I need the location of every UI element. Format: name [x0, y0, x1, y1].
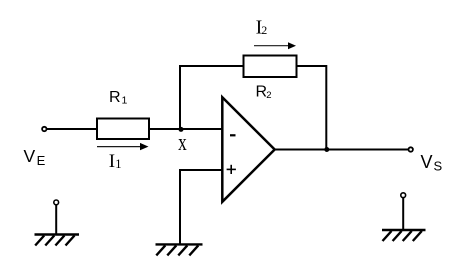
op-amp plus symbol	[227, 168, 236, 170]
wire feedback drop to output	[325, 65, 327, 150]
wire feedback top left segment	[179, 65, 244, 67]
output terminal	[409, 147, 413, 151]
svg-text:V: V	[421, 152, 433, 172]
svg-text:2: 2	[266, 90, 271, 101]
node X junction dot	[179, 127, 184, 132]
wire feedback top right segment	[297, 65, 328, 67]
svg-text:1: 1	[122, 95, 128, 107]
wire op-amp output	[275, 149, 409, 151]
ground left	[35, 200, 80, 246]
svg-text:S: S	[434, 159, 443, 174]
resistor R2	[244, 56, 297, 78]
op-amp U1	[222, 97, 274, 202]
wire feedback riser from node X	[179, 65, 181, 130]
svg-text:E: E	[37, 153, 46, 168]
op-amp minus symbol	[230, 134, 236, 136]
svg-text:2: 2	[261, 23, 267, 37]
current arrow I2	[254, 45, 289, 47]
svg-text:V: V	[24, 146, 36, 166]
svg-text:I: I	[109, 151, 115, 172]
input terminal	[42, 127, 46, 131]
wire op-amp plus input	[180, 170, 223, 244]
svg-text:x: x	[178, 128, 187, 156]
ground middle	[156, 244, 203, 255]
wire R1 to op-amp minus input	[149, 128, 223, 130]
ground right	[382, 193, 426, 241]
svg-text:1: 1	[115, 157, 121, 171]
wire input to R1	[47, 128, 97, 130]
output node junction dot	[324, 147, 329, 152]
current arrow I1	[97, 146, 141, 148]
svg-text:R: R	[109, 89, 121, 106]
resistor R1	[97, 119, 149, 140]
